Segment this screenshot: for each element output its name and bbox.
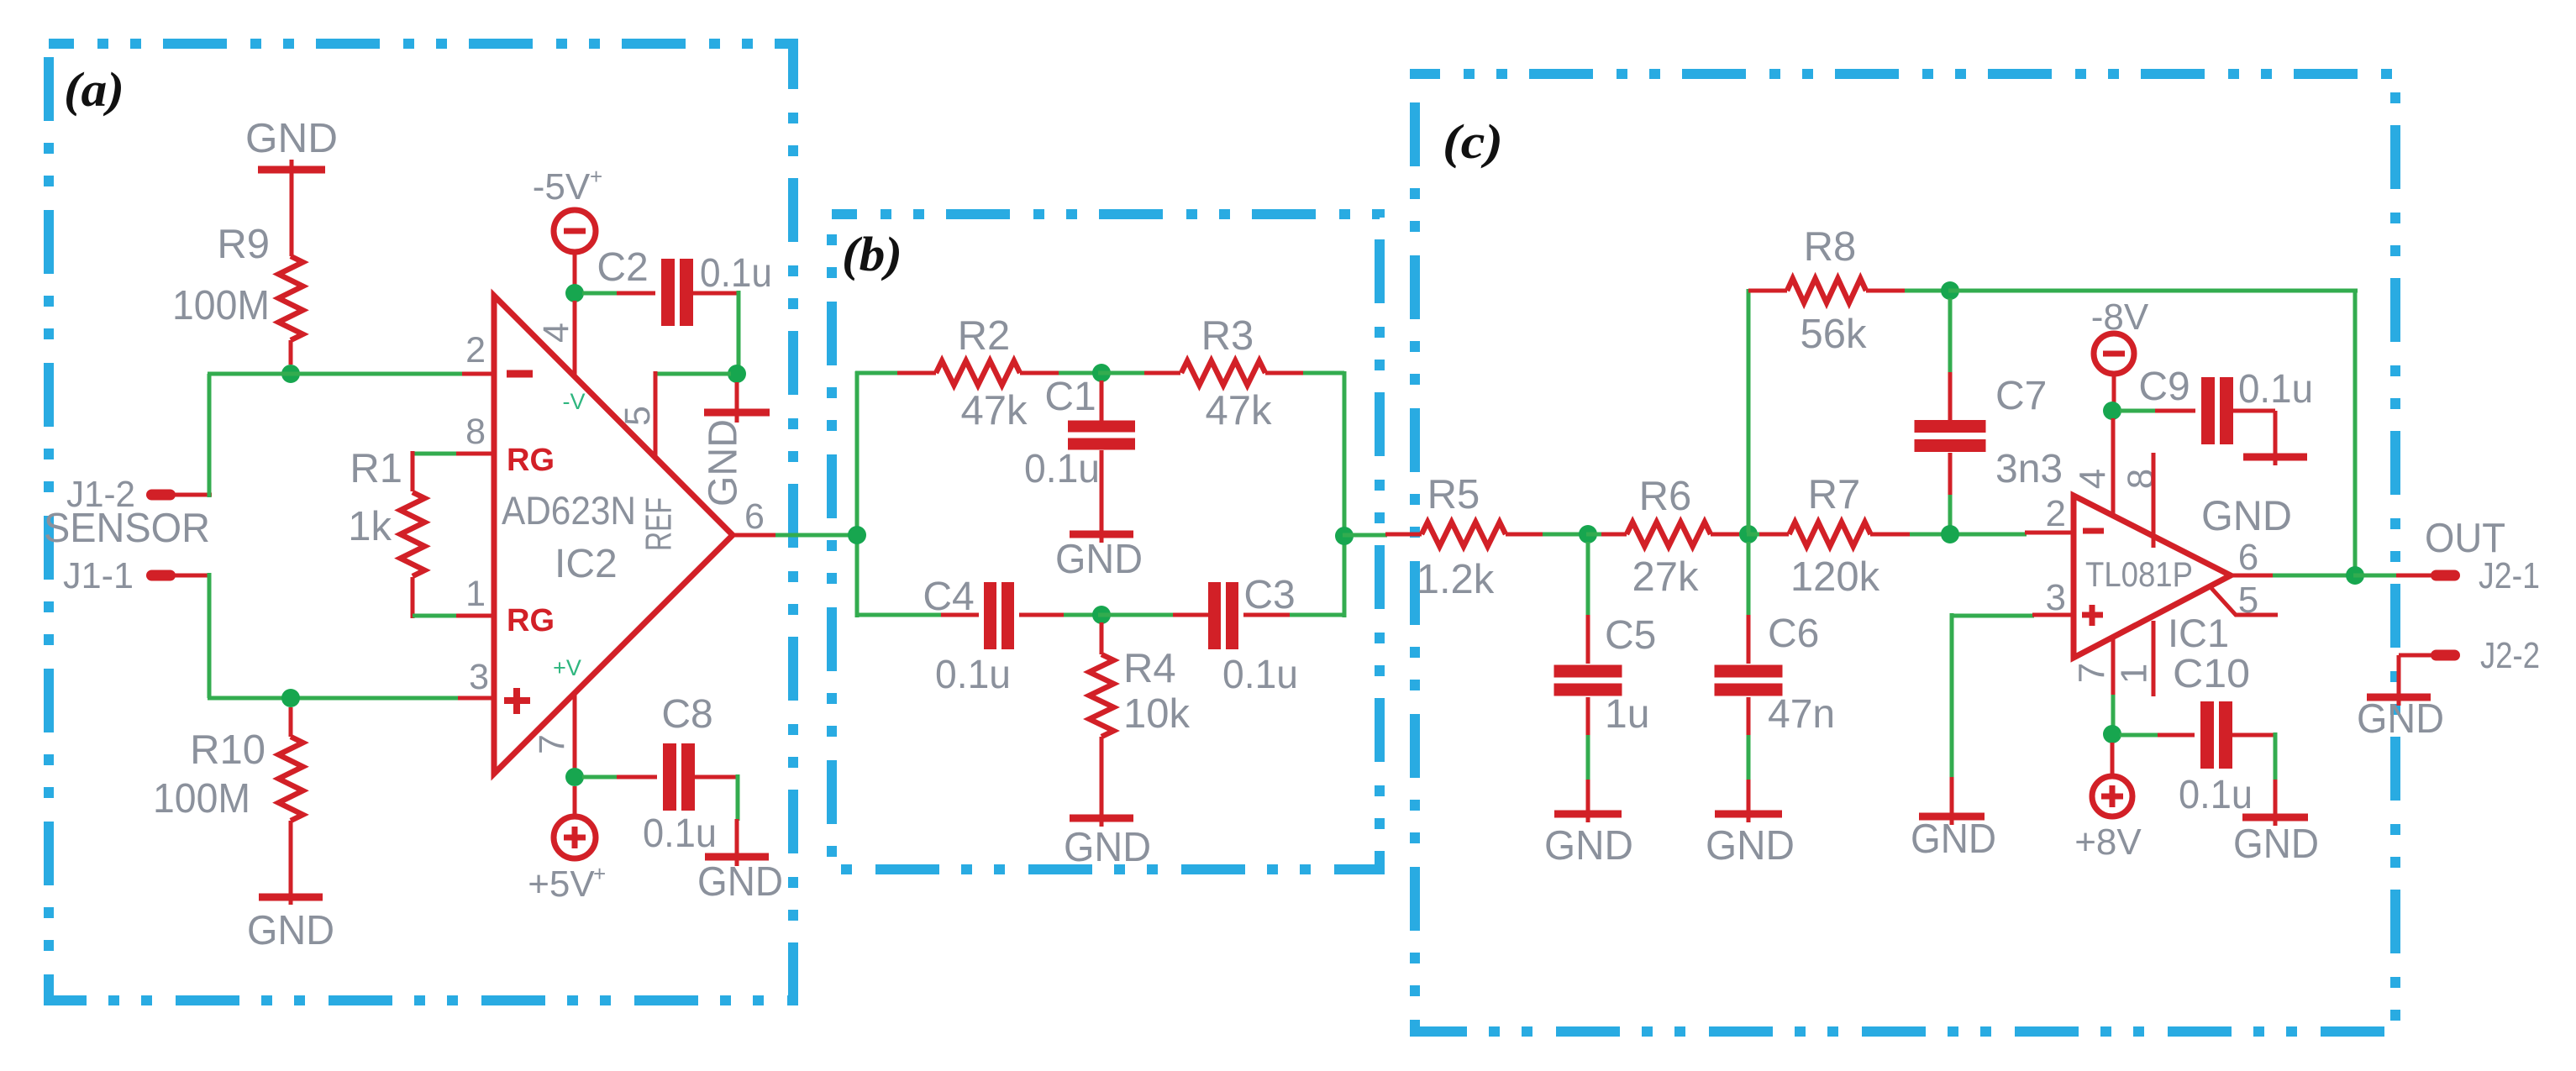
ground GND (C9) (2243, 445, 2307, 465)
resistor R9 (279, 256, 303, 365)
wire pin5 link (657, 372, 731, 376)
wire J1-1 to corner (175, 574, 211, 578)
label pin 5 rotated (618, 406, 658, 426)
label -8V (2091, 297, 2149, 338)
pin stub IC2 pin8 (456, 452, 494, 456)
pin stub IC2 pin4 (573, 301, 577, 377)
svg-text:+: + (593, 861, 606, 886)
supply +8V (2092, 776, 2132, 816)
node: C6 / R7 / R8 junction (1739, 525, 1758, 543)
label J1-1 (63, 555, 134, 596)
label pin 1 (465, 574, 486, 614)
wire C6 bottom (1747, 697, 1751, 781)
wire J1-2 to corner (175, 493, 212, 497)
resistor R1 (401, 451, 425, 618)
svg-text:47k: 47k (1205, 388, 1272, 433)
wire C6 top (1747, 542, 1751, 664)
label GND (C6) (1706, 823, 1795, 869)
svg-text:R5: R5 (1427, 472, 1480, 517)
node: C1 top (1092, 364, 1111, 382)
label R2 (958, 313, 1011, 359)
resistor R6 (1601, 522, 1741, 547)
label SENSOR (44, 506, 210, 551)
wire b out to R5 (1343, 533, 1387, 538)
label C1 (1044, 375, 1096, 419)
label GND (J2) (2357, 696, 2444, 742)
svg-text:GND: GND (245, 116, 338, 161)
capacitor C7 (1915, 420, 1986, 452)
box (c) dashed frame (1415, 74, 2395, 1032)
svg-text:R1: R1 (350, 446, 402, 491)
capacitor C8 (663, 743, 695, 811)
label IC1 (2168, 611, 2229, 655)
svg-text:3: 3 (469, 657, 489, 697)
pin stub IC1 pin4 (2111, 418, 2116, 516)
label 47k (R2) (960, 388, 1028, 433)
svg-text:100M: 100M (172, 283, 270, 328)
wire right rail (b) (1343, 371, 1347, 617)
svg-text:0.1u: 0.1u (700, 251, 772, 296)
svg-text:C7: C7 (1995, 374, 2047, 418)
svg-text:C6: C6 (1768, 612, 1819, 656)
capacitor C1 (1068, 381, 1135, 529)
wire feedback top (1948, 289, 2358, 293)
svg-text:R2: R2 (958, 313, 1011, 359)
label GND net (IC1) (2201, 492, 2292, 539)
node: C5 / R6 junction (1579, 525, 1597, 543)
svg-text:R7: R7 (1808, 472, 1861, 517)
capacitor C4 (941, 582, 1065, 649)
label pin 7 rotated (IC1) (2072, 663, 2113, 683)
IC1 minus input mark (2083, 528, 2104, 534)
resistor R10 (279, 707, 303, 892)
connector J1-1 (146, 570, 176, 581)
pin stub IC2 pin3 (458, 696, 494, 701)
svg-text:GND: GND (1544, 823, 1633, 869)
label +V (553, 655, 581, 680)
svg-text:R10: R10 (190, 727, 265, 773)
wire R5 to node (1543, 533, 1590, 537)
label pin 2 (465, 330, 486, 370)
label GND (C5) (1544, 823, 1633, 869)
wire bottom row left (855, 613, 943, 617)
node: pin4 / C9 (2103, 402, 2121, 420)
node: R8 / C7 / feedback (1941, 281, 1959, 300)
label -V (563, 389, 586, 414)
svg-text:GND: GND (1706, 823, 1795, 869)
pin stub IC1 pin3 (2032, 613, 2074, 617)
ground GND (C2) (704, 382, 770, 423)
svg-text:(b): (b) (842, 227, 902, 281)
svg-text:100M: 100M (153, 776, 250, 822)
ground GND above R9 (258, 160, 325, 256)
label pin 4 rotated (IC1) (2073, 469, 2114, 489)
connector J2-2 (2431, 650, 2460, 661)
label C10 (2173, 652, 2250, 696)
wire -5V to node (573, 252, 577, 286)
svg-text:OUT: OUT (2425, 516, 2505, 561)
label pin 2 (IC1) (2046, 493, 2066, 534)
svg-text:+: + (590, 164, 602, 189)
wire C8 right down (692, 774, 738, 821)
svg-text:3: 3 (2046, 577, 2066, 618)
wire R7 to pin2 (1910, 533, 2027, 537)
node: pin7 / C8 / +5V (565, 768, 584, 786)
wire node to R7 (1747, 533, 1761, 537)
svg-text:4: 4 (2073, 469, 2114, 489)
label 56k (R8) (1800, 312, 1867, 357)
resistor R5 (1385, 522, 1544, 547)
svg-text:R6: R6 (1639, 474, 1692, 519)
label 47n (C6) (1768, 692, 1835, 737)
wire out node to J2-1 (2353, 574, 2432, 578)
wire pin3 row horizontal (208, 696, 458, 701)
wire R6 to node (1739, 533, 1751, 537)
capacitor C3 (1173, 582, 1291, 649)
svg-text:GND: GND (1064, 825, 1151, 870)
label pin 5 (IC1) (2238, 580, 2258, 621)
label pin 3 (IC1) (2046, 577, 2066, 618)
label GND top (245, 116, 338, 161)
label OUT (2425, 516, 2505, 561)
svg-text:R3: R3 (1201, 313, 1254, 359)
svg-text:4: 4 (536, 323, 576, 343)
ground GND (C6) (1715, 780, 1782, 822)
node: R4 top (1092, 606, 1111, 624)
svg-text:6: 6 (744, 496, 765, 537)
svg-text:TL081P: TL081P (2085, 554, 2193, 594)
ground GND (IC1 pin3) (1919, 798, 1985, 825)
wire C5 top (1586, 542, 1590, 664)
svg-text:C8: C8 (661, 692, 712, 737)
connector J2-1 (2431, 570, 2460, 581)
resistor R3 (1144, 361, 1305, 386)
wire pin6 to out node (2273, 574, 2358, 578)
wire node to C9 (2120, 409, 2195, 413)
resistor R4 (1090, 622, 1114, 813)
connector J1-2 (146, 490, 176, 501)
svg-text:C1: C1 (1044, 375, 1096, 419)
svg-text:0.1u: 0.1u (643, 811, 717, 856)
node: C2 right / pin5 / GND (728, 365, 746, 383)
wire feedback right rail (2353, 289, 2358, 577)
label R4 (1123, 646, 1176, 691)
svg-text:C4: C4 (923, 575, 974, 619)
svg-text:C5: C5 (1605, 613, 1656, 658)
wire R8 left rail (1747, 289, 1751, 533)
pin stub IC1 pin7 (2111, 637, 2116, 727)
svg-text:-5V: -5V (533, 166, 591, 207)
svg-text:120k: 120k (1790, 554, 1880, 600)
node: output (2346, 566, 2364, 585)
label IC2 (555, 542, 618, 586)
label R8 (1804, 224, 1857, 270)
supply +5V (554, 816, 596, 858)
label C7 (1995, 374, 2047, 418)
label R9 (217, 222, 270, 267)
label C2 (597, 245, 648, 290)
svg-text:-V: -V (563, 389, 586, 414)
svg-text:+5V: +5V (528, 864, 595, 905)
IC1 plus input mark (2082, 605, 2103, 626)
wire corner up to pin2 row (208, 374, 212, 497)
supply -8V (2094, 333, 2134, 374)
svg-text:+V: +V (553, 655, 581, 680)
node: pin7 / C10 / +8V (2103, 725, 2121, 743)
wire C7 bottom (1948, 453, 1953, 531)
wire C10 right down (2230, 732, 2275, 781)
svg-text:C9: C9 (2138, 365, 2190, 409)
label GND (C10) (2233, 822, 2319, 867)
label GND (C8) (697, 859, 783, 905)
svg-text:GND: GND (702, 419, 746, 507)
svg-text:0.1u: 0.1u (2179, 773, 2253, 817)
op-amp IC2 AD623N triangle (494, 296, 733, 774)
svg-text:1: 1 (465, 574, 486, 614)
node: box b input (848, 526, 866, 544)
node: pin4 / C2 left (565, 284, 584, 302)
label 1u (C5) (1605, 692, 1649, 737)
label R1 (350, 446, 402, 491)
wire +8V link (2111, 743, 2115, 776)
pin line IC1 pin8 (2152, 453, 2156, 548)
svg-text:2: 2 (2046, 493, 2066, 534)
ground GND (R4) (1070, 798, 1133, 827)
pin line IC1 pin1 (2152, 621, 2156, 696)
svg-text:0.1u: 0.1u (2238, 367, 2313, 412)
resistor R2 (897, 361, 1060, 386)
svg-text:AD623N: AD623N (502, 488, 636, 533)
ground GND (C5) (1554, 780, 1622, 822)
wire pin6 to box b (775, 533, 859, 538)
wire top row left (855, 371, 899, 375)
svg-text:GND: GND (697, 859, 783, 905)
wire node to C2 (582, 291, 655, 296)
label 0.1u (C2) (700, 251, 772, 296)
svg-text:J1-1: J1-1 (63, 555, 134, 596)
label C3 (1243, 573, 1295, 617)
svg-text:C2: C2 (597, 245, 648, 290)
svg-text:J2-2: J2-2 (2480, 635, 2540, 676)
svg-text:REF: REF (639, 497, 680, 551)
wire -8V to node (2112, 373, 2116, 403)
node: box b output (1335, 527, 1354, 545)
wire node to C10 (2120, 733, 2195, 738)
ground GND (C10) (2242, 780, 2308, 826)
pin stub IC2 pin7 (573, 693, 577, 769)
op-amp IC1 TL081P triangle (2074, 496, 2231, 658)
svg-text:C10: C10 (2173, 652, 2250, 696)
label pin 8 rotated (IC1) (2121, 469, 2162, 489)
svg-text:R8: R8 (1804, 224, 1857, 270)
svg-text:0.1u: 0.1u (935, 653, 1011, 697)
IC2 minus input mark (507, 370, 533, 378)
node: C7 bottom (1941, 525, 1959, 543)
label GND (IC1 pin3) (1911, 816, 1996, 862)
svg-text:IC2: IC2 (555, 542, 618, 586)
svg-text:C3: C3 (1243, 573, 1295, 617)
svg-text:R4: R4 (1123, 646, 1176, 691)
svg-text:GND: GND (2357, 696, 2444, 742)
wire pin2 row horizontal (208, 372, 462, 376)
wire C3 to right rail (1290, 613, 1346, 617)
label AD623N (502, 488, 636, 533)
label RG lower (IC2 pin1) (507, 603, 555, 638)
svg-text:3n3: 3n3 (1995, 447, 2063, 491)
pin stub IC1 pin2 (2025, 531, 2074, 535)
label C5 (1605, 613, 1656, 658)
svg-text:2: 2 (465, 330, 486, 370)
label 1k (R1) (348, 504, 392, 549)
label pin 8 (465, 412, 486, 452)
svg-text:47n: 47n (1768, 692, 1835, 737)
wire pin3 row (IC1) (1950, 614, 2034, 618)
svg-text:RG: RG (507, 443, 555, 478)
svg-text:7: 7 (2072, 663, 2113, 683)
label C8 (661, 692, 712, 737)
svg-text:J2-1: J2-1 (2479, 555, 2540, 596)
wire pin1 row (413, 614, 456, 618)
svg-text:(a): (a) (64, 62, 124, 117)
label GND (R10) (247, 908, 334, 953)
resistor R8 (1748, 279, 1906, 303)
label pin 4 rotated (536, 323, 576, 343)
capacitor C6 (1715, 665, 1783, 696)
wire C4 to node (1064, 613, 1105, 617)
resistor R7 (1759, 522, 1911, 547)
label TL081P (2085, 554, 2193, 594)
label 120k (R7) (1790, 554, 1880, 600)
svg-text:GND: GND (2233, 822, 2319, 867)
box (b) dashed frame (832, 214, 1380, 869)
label 100M (R9) (172, 283, 270, 328)
svg-text:7: 7 (532, 734, 572, 754)
svg-text:27k: 27k (1632, 554, 1699, 600)
ground GND below R10 (259, 882, 323, 905)
label R7 (1808, 472, 1861, 517)
svg-text:0.1u: 0.1u (1024, 447, 1100, 491)
label 0.1u (C8) (643, 811, 717, 856)
label C6 (1768, 612, 1819, 656)
label J2-2 (2480, 635, 2540, 676)
svg-text:1.2k: 1.2k (1417, 557, 1495, 602)
capacitor C9 (2201, 377, 2233, 444)
svg-text:0.1u: 0.1u (1222, 653, 1298, 697)
label (c) (1443, 114, 1503, 169)
label pin 6 (IC1) (2238, 537, 2258, 578)
svg-text:6: 6 (2238, 537, 2258, 578)
box (a) dashed frame (49, 44, 793, 1000)
label 27k (R6) (1632, 554, 1699, 600)
label R10 (190, 727, 265, 773)
label J2-1 (2479, 555, 2540, 596)
label pin 7 rotated (532, 734, 572, 754)
wire node to C3 (1098, 613, 1175, 617)
label 0.1u (C10) (2179, 773, 2253, 817)
wire left rail (b) (855, 371, 860, 617)
IC2 plus input mark (504, 688, 530, 714)
svg-text:1u: 1u (1605, 692, 1649, 737)
label GND rotated (C2) (702, 419, 746, 507)
label 0.1u (C4) (935, 653, 1011, 697)
label R5 (1427, 472, 1480, 517)
supply -5V (554, 210, 596, 252)
pin stub IC1 pin6 (2231, 574, 2274, 578)
svg-text:GND: GND (247, 908, 334, 953)
pin stub IC2 pin6 (733, 533, 777, 538)
label (b) (842, 227, 902, 281)
wire pin8 row (413, 452, 456, 456)
label C9 (2138, 365, 2190, 409)
wire node to C8 (582, 775, 657, 780)
capacitor C2 (661, 259, 693, 326)
node: R10 / pin3 net (281, 689, 300, 707)
label pin 6 (744, 496, 765, 537)
label GND (C1) (1055, 537, 1143, 582)
wire node to R6 (1586, 533, 1603, 537)
wire C7 top (1948, 298, 1953, 421)
wire R3 to right rail (1303, 371, 1344, 375)
svg-text:GND: GND (2201, 492, 2292, 539)
label 3n3 (C7) (1995, 447, 2063, 491)
wire C9 right down (2231, 411, 2275, 452)
label R6 (1639, 474, 1692, 519)
svg-text:(c): (c) (1443, 114, 1503, 169)
label (a) (64, 62, 124, 117)
wire R2 to node (1059, 371, 1105, 375)
wire R8 to node (1905, 289, 1952, 293)
svg-text:+8V: +8V (2074, 822, 2142, 863)
label pin 3 (469, 657, 489, 697)
label 100M (R10) (153, 776, 250, 822)
label GND (R4) (1064, 825, 1151, 870)
pin stub IC2 pin5 (654, 371, 658, 457)
label +5V (528, 861, 606, 905)
ground GND (J2) (2367, 689, 2431, 706)
svg-text:5: 5 (618, 406, 658, 426)
wire corner down to pin3 row (208, 573, 212, 698)
pin line IC1 pin5 (2210, 586, 2278, 615)
capacitor C5 (1554, 665, 1622, 696)
label RG upper (IC2 pin8) (507, 443, 555, 478)
svg-text:GND: GND (1055, 537, 1143, 582)
wire node to R3 (1098, 371, 1146, 375)
svg-text:47k: 47k (960, 388, 1028, 433)
label 0.1u (C1) (1024, 447, 1100, 491)
label 0.1u (C3) (1222, 653, 1298, 697)
label +8V (2074, 822, 2142, 863)
svg-text:R9: R9 (217, 222, 270, 267)
svg-text:8: 8 (465, 412, 486, 452)
label pin 1 rotated (IC1) (2114, 664, 2155, 684)
svg-text:1k: 1k (348, 504, 392, 549)
label J1-2 (66, 474, 135, 515)
capacitor C10 (2200, 701, 2232, 769)
ground GND (C1) (1070, 521, 1133, 543)
label R3 (1201, 313, 1254, 359)
svg-text:RG: RG (507, 603, 555, 638)
wire pin3 down (1950, 613, 1954, 811)
wire J2-2 to ground (2399, 655, 2432, 694)
svg-text:-8V: -8V (2091, 297, 2149, 338)
label -5V (533, 164, 602, 207)
wire C2 right to node (691, 291, 739, 368)
label REF rotated (639, 497, 680, 551)
node: R9 / pin2 net (281, 365, 300, 383)
label 10k (R4) (1123, 691, 1191, 737)
wire C5 bottom (1586, 697, 1590, 781)
label 1.2k (R5) (1417, 557, 1495, 602)
